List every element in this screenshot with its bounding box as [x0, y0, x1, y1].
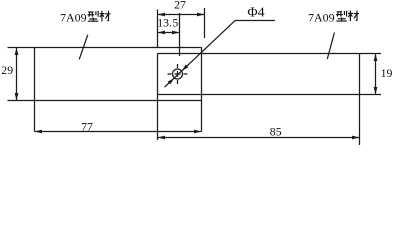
- svg-text:5: 5: [172, 16, 178, 30]
- svg-text:7A09: 7A09: [308, 10, 335, 24]
- svg-text:19: 19: [381, 66, 393, 80]
- svg-text:7A09: 7A09: [60, 10, 87, 24]
- svg-text:13.: 13.: [157, 16, 172, 30]
- svg-text:27: 27: [174, 0, 186, 11]
- svg-text:29: 29: [1, 63, 13, 77]
- svg-text:77: 77: [81, 120, 93, 134]
- svg-text:85: 85: [270, 125, 282, 139]
- svg-text:Φ4: Φ4: [247, 5, 264, 20]
